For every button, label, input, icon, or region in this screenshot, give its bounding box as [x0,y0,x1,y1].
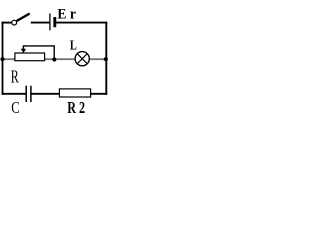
wire: middle horizontal (gray) from left rail to right rail [2,58,106,60]
node: junction left rail / middle wire [0,57,4,61]
capacitor C: right plate [30,86,32,102]
resistor R2: box [59,89,90,97]
switch S (open knife switch) [12,14,30,26]
battery cell E r: short thick plate [53,17,56,27]
wire: bottom segment capacitor to R2 [32,93,60,95]
wire: bottom segment left rail to capacitor [2,93,26,95]
svg-text:C: C [11,98,19,117]
wire: top segment switch to battery [31,22,50,24]
wire: bottom segment R2 to right rail [91,93,108,95]
svg-text:E r: E r [57,6,76,22]
wire: right vertical rail [105,22,107,95]
lamp L: circle with cross [75,52,89,66]
wire: top-left segment from left rail to switch [2,22,12,24]
node: junction wiper drop / middle wire [52,57,56,61]
wire: left vertical rail [2,22,4,95]
wire: top segment battery to right rail [56,22,107,24]
rheostat R: wiper arm with arrow [21,46,54,59]
svg-text:L: L [70,39,77,54]
node: junction right rail / middle wire [104,57,108,61]
battery cell E r: long thin plate [49,13,51,30]
rheostat R: resistor box [15,53,45,61]
svg-text:R 2: R 2 [67,98,85,117]
svg-text:R: R [11,67,19,87]
capacitor C: left plate [25,86,27,102]
